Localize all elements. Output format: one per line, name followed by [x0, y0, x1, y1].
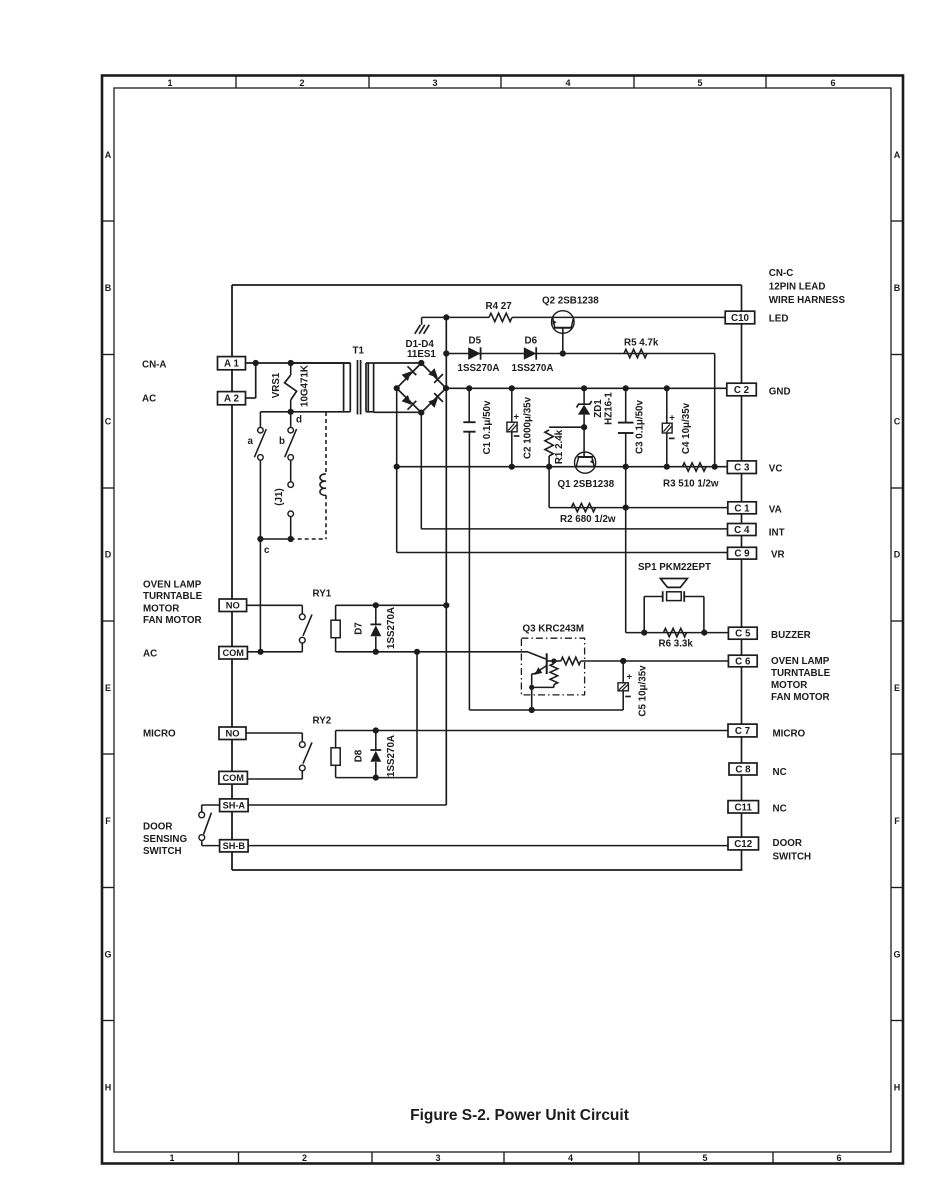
- svg-text:C 1: C 1: [734, 503, 750, 514]
- svg-text:F: F: [105, 816, 111, 826]
- svg-text:VRS1: VRS1: [271, 372, 282, 398]
- svg-text:5: 5: [697, 78, 702, 88]
- svg-text:CN-C: CN-C: [769, 268, 794, 279]
- svg-text:3: 3: [432, 78, 437, 88]
- svg-text:10G471K: 10G471K: [300, 365, 311, 407]
- svg-text:TURNTABLE: TURNTABLE: [143, 591, 203, 602]
- svg-text:C 7: C 7: [735, 726, 751, 737]
- svg-text:D5: D5: [469, 336, 482, 347]
- svg-text:DOOR: DOOR: [143, 822, 172, 833]
- svg-text:G: G: [893, 950, 900, 960]
- svg-text:A 1: A 1: [224, 359, 239, 370]
- svg-text:E: E: [894, 683, 900, 693]
- svg-text:2: 2: [302, 1153, 307, 1163]
- svg-text:SWITCH: SWITCH: [773, 852, 812, 863]
- svg-text:H: H: [894, 1083, 901, 1093]
- svg-text:Figure S-2. Power Unit Circuit: Figure S-2. Power Unit Circuit: [410, 1107, 629, 1124]
- svg-text:a: a: [248, 436, 254, 447]
- svg-text:NO: NO: [225, 728, 239, 739]
- svg-text:AC: AC: [143, 649, 157, 660]
- svg-text:C: C: [894, 417, 901, 427]
- svg-text:E: E: [105, 683, 111, 693]
- svg-text:VR: VR: [771, 550, 785, 561]
- svg-text:NC: NC: [773, 804, 787, 815]
- svg-text:D7: D7: [354, 622, 365, 635]
- svg-text:A: A: [894, 150, 901, 160]
- svg-text:NC: NC: [773, 767, 787, 778]
- svg-text:+: +: [669, 413, 675, 424]
- svg-text:T1: T1: [353, 346, 365, 357]
- svg-text:RY1: RY1: [313, 589, 332, 600]
- svg-text:Q3 KRC243M: Q3 KRC243M: [523, 624, 585, 635]
- svg-text:C2 1000μ/35v: C2 1000μ/35v: [523, 396, 534, 459]
- svg-text:1SS270A: 1SS270A: [386, 735, 397, 777]
- svg-text:C 6: C 6: [735, 657, 751, 668]
- svg-text:4: 4: [565, 78, 570, 88]
- svg-text:D6: D6: [525, 336, 538, 347]
- svg-text:5: 5: [702, 1153, 707, 1163]
- svg-text:(J1): (J1): [274, 488, 285, 505]
- svg-text:G: G: [104, 950, 111, 960]
- svg-text:1: 1: [167, 78, 172, 88]
- svg-text:OVEN LAMP: OVEN LAMP: [771, 656, 830, 667]
- svg-text:BUZZER: BUZZER: [771, 630, 811, 641]
- svg-text:TURNTABLE: TURNTABLE: [771, 668, 831, 679]
- svg-text:2: 2: [299, 78, 304, 88]
- svg-text:MICRO: MICRO: [773, 729, 806, 740]
- svg-text:GND: GND: [769, 387, 791, 398]
- svg-text:LED: LED: [769, 314, 789, 325]
- svg-text:R2 680 1/2w: R2 680 1/2w: [560, 514, 616, 525]
- svg-text:HZ16-1: HZ16-1: [604, 392, 615, 425]
- svg-text:R6 3.3k: R6 3.3k: [659, 639, 694, 650]
- svg-text:D8: D8: [354, 749, 365, 762]
- svg-text:D: D: [894, 550, 901, 560]
- svg-text:C 2: C 2: [734, 385, 750, 396]
- svg-text:SP1 PKM22EPT: SP1 PKM22EPT: [638, 562, 711, 573]
- svg-text:1SS270A: 1SS270A: [386, 607, 397, 649]
- svg-text:1SS270A: 1SS270A: [458, 363, 500, 374]
- svg-text:R1 2.4k: R1 2.4k: [554, 429, 565, 464]
- svg-text:MOTOR: MOTOR: [143, 604, 179, 615]
- svg-text:C 4: C 4: [734, 525, 750, 536]
- svg-text:NO: NO: [226, 600, 240, 611]
- svg-text:D: D: [105, 550, 112, 560]
- svg-text:F: F: [894, 816, 900, 826]
- svg-text:C1 0.1μ/50v: C1 0.1μ/50v: [482, 400, 493, 454]
- svg-text:d: d: [296, 415, 302, 426]
- svg-text:C 8: C 8: [735, 765, 751, 776]
- svg-text:SENSING: SENSING: [143, 834, 187, 845]
- svg-text:H: H: [105, 1083, 112, 1093]
- svg-text:INT: INT: [769, 528, 785, 539]
- svg-text:b: b: [279, 436, 285, 447]
- svg-text:C4 10μ/35v: C4 10μ/35v: [681, 402, 692, 454]
- svg-text:AC: AC: [142, 394, 156, 405]
- svg-text:4: 4: [568, 1153, 573, 1163]
- svg-text:C3 0.1μ/50v: C3 0.1μ/50v: [635, 399, 646, 453]
- svg-text:6: 6: [830, 78, 835, 88]
- svg-text:A: A: [105, 150, 112, 160]
- svg-text:3: 3: [435, 1153, 440, 1163]
- svg-text:R4 27: R4 27: [486, 301, 513, 312]
- svg-text:RY2: RY2: [313, 716, 332, 727]
- svg-text:C: C: [105, 417, 112, 427]
- svg-text:11ES1: 11ES1: [407, 349, 436, 360]
- svg-text:A 2: A 2: [224, 394, 239, 405]
- svg-text:6: 6: [836, 1153, 841, 1163]
- svg-text:C 5: C 5: [735, 629, 751, 640]
- svg-text:VC: VC: [769, 464, 783, 475]
- svg-text:COM: COM: [222, 648, 244, 658]
- svg-text:ZD1: ZD1: [593, 399, 604, 418]
- svg-text:WIRE HARNESS: WIRE HARNESS: [769, 295, 846, 306]
- svg-text:VA: VA: [769, 505, 782, 516]
- svg-text:SWITCH: SWITCH: [143, 846, 182, 857]
- svg-text:FAN MOTOR: FAN MOTOR: [771, 692, 830, 703]
- svg-text:OVEN LAMP: OVEN LAMP: [143, 580, 202, 591]
- svg-text:B: B: [105, 283, 112, 293]
- svg-text:1SS270A: 1SS270A: [512, 363, 554, 374]
- svg-text:MICRO: MICRO: [143, 729, 176, 740]
- svg-text:Q2 2SB1238: Q2 2SB1238: [542, 296, 599, 307]
- svg-text:C 9: C 9: [734, 549, 750, 560]
- svg-text:C12: C12: [734, 839, 753, 850]
- svg-text:Q1 2SB1238: Q1 2SB1238: [558, 479, 615, 490]
- svg-text:MOTOR: MOTOR: [771, 680, 807, 691]
- svg-text:DOOR: DOOR: [773, 838, 802, 849]
- svg-text:c: c: [264, 545, 270, 556]
- svg-text:SH-A: SH-A: [223, 801, 246, 811]
- svg-text:FAN MOTOR: FAN MOTOR: [143, 615, 202, 626]
- svg-text:C10: C10: [731, 313, 750, 324]
- svg-text:R5 4.7k: R5 4.7k: [624, 338, 659, 349]
- svg-text:CN-A: CN-A: [142, 360, 167, 371]
- svg-text:C11: C11: [734, 802, 752, 813]
- svg-text:+: +: [627, 672, 633, 683]
- svg-text:1: 1: [169, 1153, 174, 1163]
- svg-text:12PIN LEAD: 12PIN LEAD: [769, 282, 826, 293]
- svg-text:C5 10μ/35v: C5 10μ/35v: [637, 665, 648, 717]
- svg-text:+: +: [514, 412, 520, 423]
- svg-text:C 3: C 3: [734, 463, 750, 474]
- svg-text:COM: COM: [222, 773, 244, 783]
- svg-text:B: B: [894, 283, 901, 293]
- svg-text:SH-B: SH-B: [223, 841, 246, 851]
- svg-text:R3 510 1/2w: R3 510 1/2w: [663, 479, 719, 490]
